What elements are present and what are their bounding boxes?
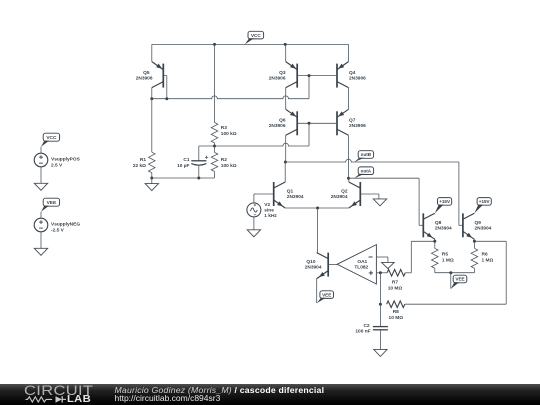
svg-text:2N3906: 2N3906 xyxy=(269,75,286,81)
svg-text:2N3904: 2N3904 xyxy=(435,226,452,232)
svg-text:TL082: TL082 xyxy=(354,265,368,271)
svg-text:VsupplyNEG: VsupplyNEG xyxy=(51,222,80,228)
svg-text:R7: R7 xyxy=(392,280,398,286)
svg-text:R3: R3 xyxy=(221,125,227,131)
svg-text:+15V: +15V xyxy=(479,199,491,204)
svg-text:Q10: Q10 xyxy=(306,259,315,265)
svg-text:1 MΩ: 1 MΩ xyxy=(442,258,454,264)
svg-text:1 MΩ: 1 MΩ xyxy=(482,258,494,264)
svg-text:R2: R2 xyxy=(221,157,227,163)
svg-text:VEE: VEE xyxy=(322,292,331,297)
svg-text:2N3906: 2N3906 xyxy=(349,123,366,129)
svg-text:10 µF: 10 µF xyxy=(177,163,189,169)
svg-text:sine: sine xyxy=(264,208,274,214)
svg-text:2N3904: 2N3904 xyxy=(475,226,492,232)
svg-text:VEE: VEE xyxy=(455,277,464,282)
svg-text:-2.5 V: -2.5 V xyxy=(51,228,65,234)
svg-text:outA: outA xyxy=(361,168,372,173)
svg-text:2N3904: 2N3904 xyxy=(305,265,322,271)
svg-text:VsupplyPOS: VsupplyPOS xyxy=(51,157,81,163)
svg-text:Q9: Q9 xyxy=(475,220,482,226)
svg-text:2.5 V: 2.5 V xyxy=(51,163,63,169)
svg-text:2N3906: 2N3906 xyxy=(269,123,286,129)
svg-text:100 kΩ: 100 kΩ xyxy=(221,163,237,169)
svg-text:outB: outB xyxy=(361,152,372,157)
svg-text:100 nF: 100 nF xyxy=(355,329,370,335)
svg-text:Q6: Q6 xyxy=(279,118,286,124)
svg-text:+15V: +15V xyxy=(439,199,451,204)
svg-text:Q1: Q1 xyxy=(287,189,294,195)
svg-text:VCC: VCC xyxy=(251,33,261,38)
svg-text:Q2: Q2 xyxy=(341,189,348,195)
svg-text:VEE: VEE xyxy=(47,200,57,206)
svg-text:22 kΩ: 22 kΩ xyxy=(133,163,146,169)
svg-text:OA1: OA1 xyxy=(357,259,367,265)
svg-text:V2: V2 xyxy=(264,202,270,208)
svg-text:R8: R8 xyxy=(393,309,399,315)
svg-text:Q8: Q8 xyxy=(435,220,442,226)
svg-text:2N3906: 2N3906 xyxy=(349,75,366,81)
svg-text:2N3904: 2N3904 xyxy=(287,194,304,200)
svg-text:R6: R6 xyxy=(482,252,488,258)
svg-text:R5: R5 xyxy=(442,252,448,258)
svg-text:10 MΩ: 10 MΩ xyxy=(388,286,403,292)
svg-text:2N3906: 2N3906 xyxy=(136,75,153,81)
svg-text:Q5: Q5 xyxy=(143,70,150,76)
svg-text:R1: R1 xyxy=(140,157,146,163)
svg-text:Q3: Q3 xyxy=(279,70,286,76)
svg-text:1 kHz: 1 kHz xyxy=(264,213,277,219)
svg-text:VCC: VCC xyxy=(46,135,57,141)
svg-text:C1: C1 xyxy=(183,157,189,163)
svg-text:2N3904: 2N3904 xyxy=(331,194,348,200)
svg-text:Q7: Q7 xyxy=(349,118,356,124)
svg-text:C2: C2 xyxy=(363,323,369,329)
svg-text:100 kΩ: 100 kΩ xyxy=(221,131,237,137)
svg-text:10 MΩ: 10 MΩ xyxy=(389,315,404,321)
svg-text:Q4: Q4 xyxy=(349,70,356,76)
